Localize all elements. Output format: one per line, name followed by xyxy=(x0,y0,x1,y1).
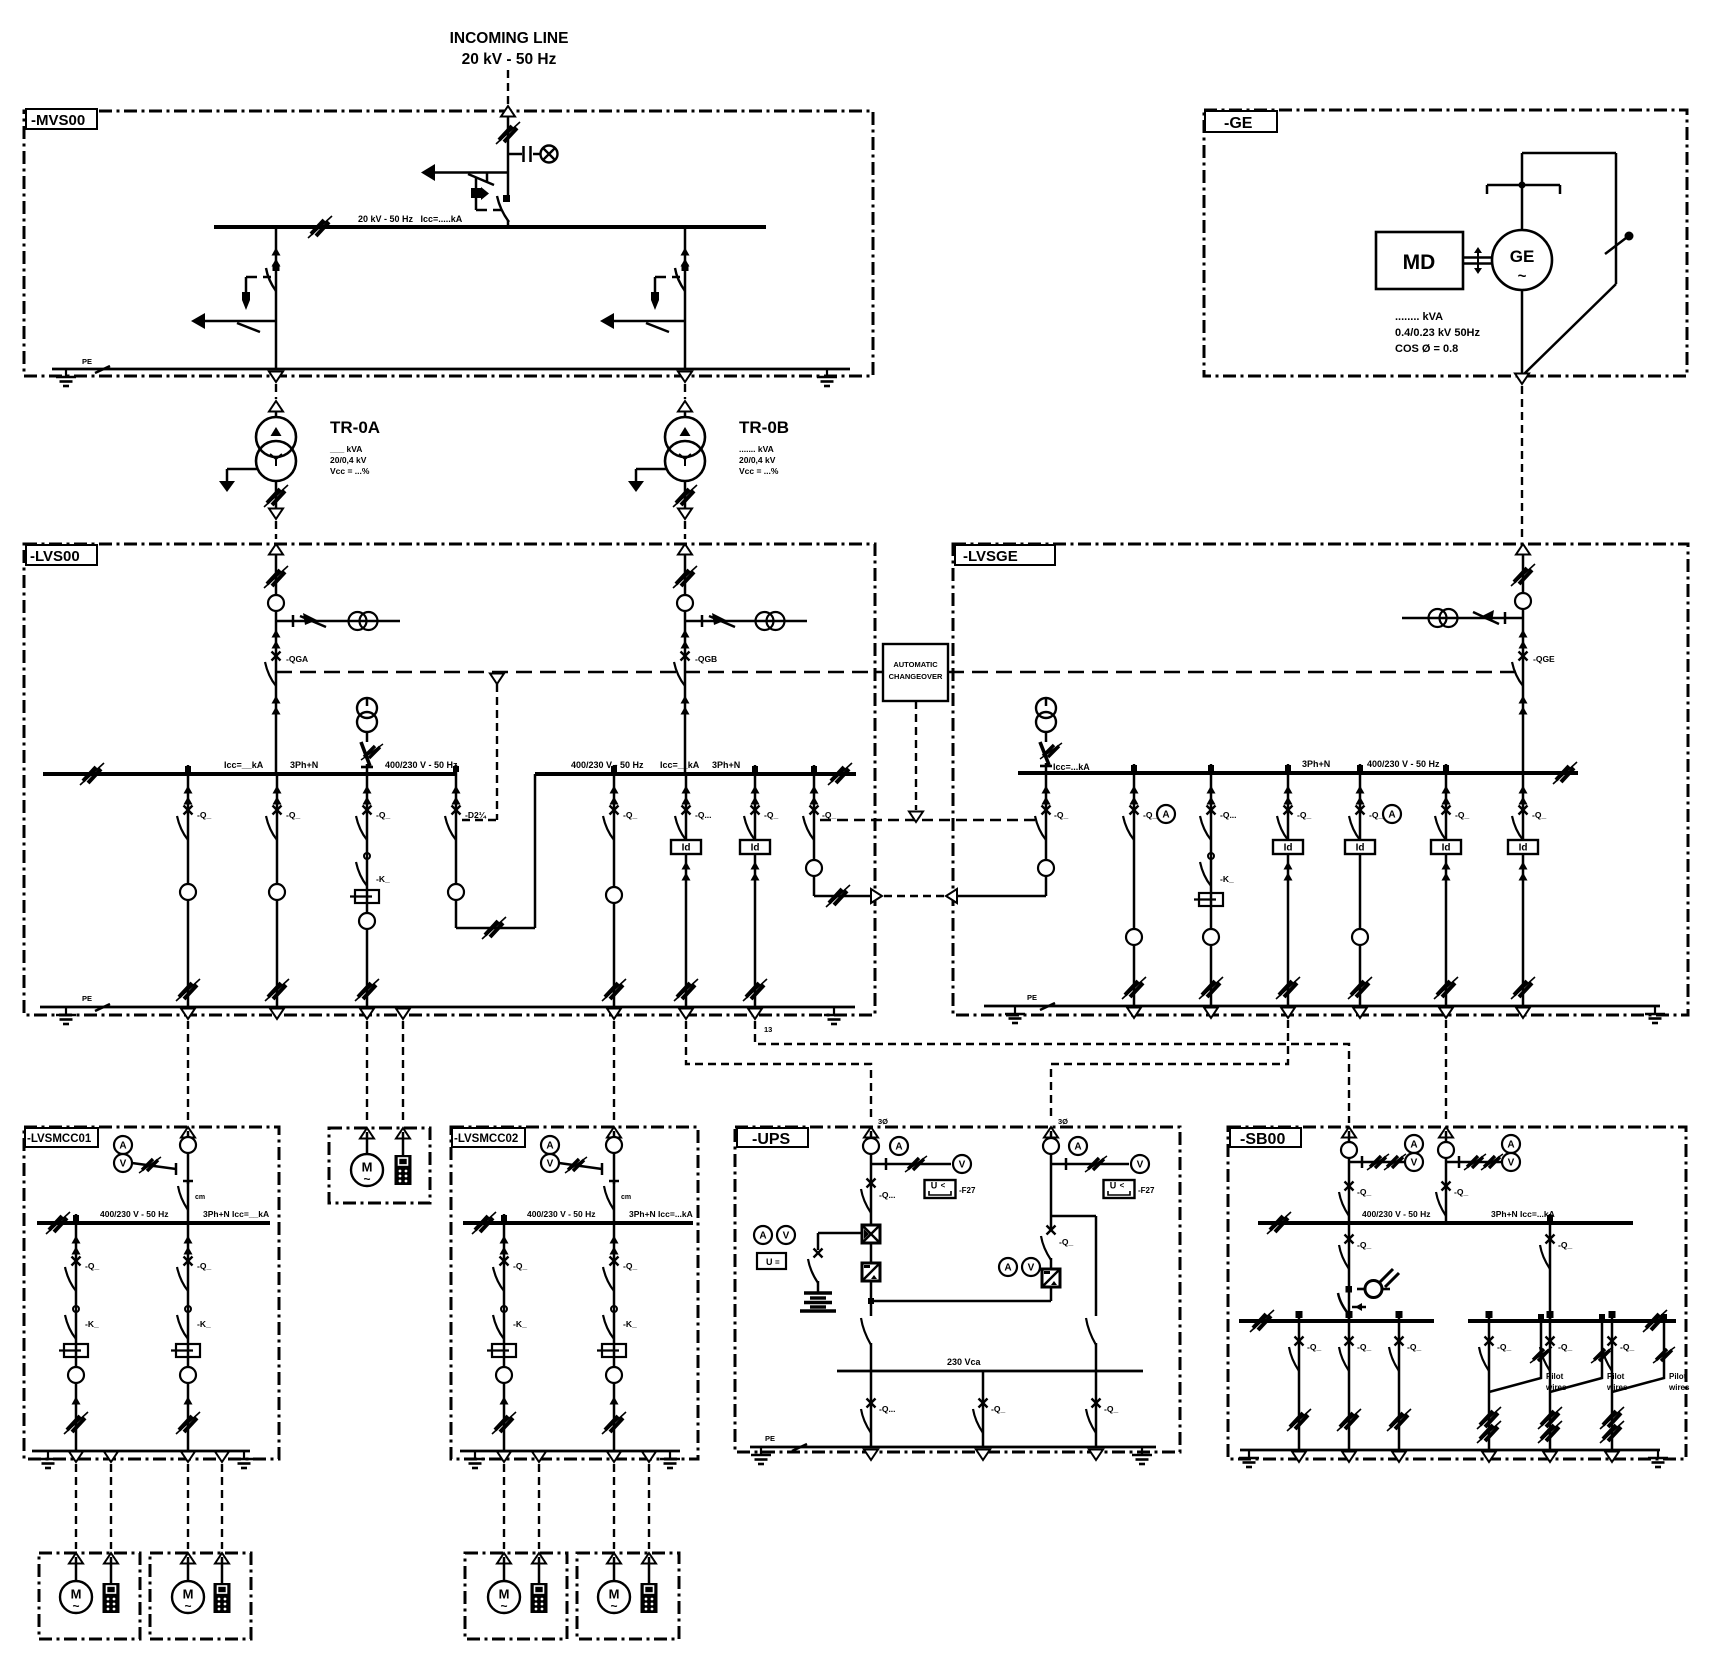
voltmeter ammeter MCC02 xyxy=(541,1136,602,1175)
wire motor4 leads xyxy=(614,1557,649,1583)
cable mark MV busbar xyxy=(308,216,332,238)
wire link m2 motor xyxy=(187,1464,189,1549)
static switch UPS xyxy=(1042,1269,1060,1287)
svg-text:3Ph+N Icc=...kA: 3Ph+N Icc=...kA xyxy=(1491,1209,1555,1219)
withdrawable contacts g1 xyxy=(1130,786,1139,805)
residual relay Id g3 xyxy=(1273,840,1303,854)
wire tie to LVSGE xyxy=(957,895,1046,898)
MCC02 motor feeder 1 xyxy=(487,1223,527,1462)
cable mark tie xyxy=(482,917,506,939)
UPS output switch bypass xyxy=(1086,1311,1096,1371)
switch blade aux incoming xyxy=(468,172,494,185)
switch -QGB xyxy=(674,652,690,687)
node aux arrow m4b xyxy=(642,1452,656,1463)
svg-text:3Ph+N: 3Ph+N xyxy=(712,760,740,770)
drive device 2 xyxy=(214,1583,231,1613)
residual relay Id g6 xyxy=(1508,840,1538,854)
node busbar tap x456 xyxy=(453,765,459,774)
label box -LVS00 xyxy=(26,545,97,565)
switch -Q u2 xyxy=(1041,1216,1073,1272)
CT GE incomer xyxy=(1429,609,1458,627)
withdrawable contacts QGB xyxy=(681,630,690,649)
wire link LVS00-f4 to MCC02 xyxy=(613,1021,615,1120)
CT incomer A xyxy=(349,612,378,630)
thermal relay m3 xyxy=(487,1344,516,1357)
label busbar right xyxy=(571,760,740,770)
interlock dashed line QGA-QGB xyxy=(276,671,883,673)
withdrawable contacts tieGE xyxy=(1042,786,1051,805)
wire incomer B xyxy=(684,554,687,774)
svg-text:-LVSGE: -LVSGE xyxy=(963,548,1018,565)
transformer TR-0B xyxy=(665,417,705,481)
node entry arrows motor box 2 xyxy=(181,1553,229,1564)
breaker -Q f2 xyxy=(266,806,282,841)
contactor -K g2 xyxy=(1200,853,1214,886)
switch -Q lf xyxy=(1345,1235,1354,1244)
PE bar SB00 xyxy=(1240,1449,1660,1452)
svg-text:PE: PE xyxy=(82,994,92,1003)
interlock dashed line QGE xyxy=(948,671,1516,673)
node busbar tap x76 xyxy=(73,1214,79,1223)
node busbar tap x1211 xyxy=(1208,764,1214,773)
node busbar tap x1550 xyxy=(1547,1214,1553,1223)
withdrawable contacts f2 xyxy=(273,786,282,805)
node exit arrow f4 xyxy=(607,1009,621,1020)
ground MCC01 left xyxy=(38,1451,58,1468)
node aux arrow m2b xyxy=(215,1452,229,1463)
wire drive unit xyxy=(402,1132,405,1155)
wire link m3 device xyxy=(538,1464,540,1549)
enclosure motor box 2 xyxy=(150,1553,251,1639)
svg-text:-Q_: -Q_ xyxy=(1532,810,1546,820)
wire feeder 6 xyxy=(754,774,757,1007)
ground MCC02 right xyxy=(660,1451,680,1468)
node entry arrow LVS00 A xyxy=(269,544,283,555)
LVS00 feeder 4 (to LVSMCC02) xyxy=(602,774,637,1019)
wire feeder B xyxy=(684,227,687,369)
svg-text:~: ~ xyxy=(1518,268,1527,285)
svg-text:230 Vca: 230 Vca xyxy=(947,1357,982,1367)
svg-text:-K_: -K_ xyxy=(376,874,390,884)
ground LVSGE right xyxy=(1645,1006,1665,1023)
busbar LVS00 right xyxy=(535,772,856,776)
node entry arrow SB00 line 1 xyxy=(1342,1127,1356,1138)
LVSGE tie feeder xyxy=(1035,773,1068,896)
withdrawable contact m4 low xyxy=(610,1397,619,1405)
main switch MCC01 xyxy=(187,1180,190,1184)
instrument circle u2 xyxy=(1043,1138,1059,1154)
node boundary arrow left xyxy=(871,889,882,903)
svg-text:20/0,4 kV: 20/0,4 kV xyxy=(739,455,776,465)
breaker -Q g4 xyxy=(1349,806,1365,841)
PE bar LVSGE xyxy=(984,1005,1660,1008)
ground UPS left xyxy=(751,1447,771,1464)
node exit arrow m3 xyxy=(497,1452,511,1463)
svg-text:CHANGEOVER: CHANGEOVER xyxy=(889,672,943,681)
svg-text:-Q_: -Q_ xyxy=(623,1261,637,1271)
neutral bracket xyxy=(1487,182,1560,195)
wire generator star point xyxy=(1522,153,1616,284)
withdrawable contacts g3 xyxy=(1284,786,1293,805)
PE bar MCC01 xyxy=(32,1450,250,1453)
withdrawable contacts m4 xyxy=(610,1236,619,1255)
voltmeter s2 xyxy=(1502,1153,1520,1171)
UPS outgoing 1 xyxy=(861,1371,896,1460)
withdrawable contacts f1 xyxy=(184,786,193,805)
contactor -K m4 xyxy=(603,1306,617,1339)
motor M3 xyxy=(488,1581,520,1613)
svg-text:-Q_: -Q_ xyxy=(197,810,211,820)
node entry arrow UPS line 2 xyxy=(1044,1117,1068,1138)
cable mark f1 xyxy=(176,979,200,1001)
incomer MCC02 xyxy=(604,1131,631,1223)
wire GE feeder 1 xyxy=(1133,773,1136,1006)
svg-text:-Q_: -Q_ xyxy=(1357,1240,1371,1250)
svg-text:-Q_: -Q_ xyxy=(1357,1187,1371,1197)
svg-text:MD: MD xyxy=(1403,251,1436,274)
label box -MVS00 xyxy=(26,109,97,129)
svg-text:-LVSMCC01: -LVSMCC01 xyxy=(27,1133,92,1145)
svg-text:-LVSMCC02: -LVSMCC02 xyxy=(454,1133,518,1145)
svg-text:-Q_: -Q_ xyxy=(85,1261,99,1271)
svg-text:=: = xyxy=(775,1258,780,1267)
withdrawable contacts g5 lower xyxy=(1442,862,1451,881)
wire GE incomer xyxy=(1522,554,1525,773)
SB00 incomer 1 xyxy=(1339,1131,1423,1223)
ground LVSGE left xyxy=(1005,1006,1025,1023)
wire motor3 leads xyxy=(504,1557,539,1583)
instrument circle incomer MCC01 xyxy=(180,1137,196,1153)
busbar MV 20kV xyxy=(214,225,766,229)
instrument circle f1 xyxy=(180,884,196,900)
drive device 1 xyxy=(103,1583,120,1613)
LVSGE feeder 5 (to SB00) xyxy=(1431,773,1469,1018)
svg-text:-Q_: -Q_ xyxy=(197,1261,211,1271)
MV feeder bay A xyxy=(191,227,281,369)
residual relay Id f6 xyxy=(740,840,770,854)
withdrawable contacts m2 xyxy=(184,1236,193,1255)
svg-text:-Q_: -Q_ xyxy=(1497,1342,1511,1352)
ground MVS00 right xyxy=(817,369,837,386)
svg-text:-LVS00: -LVS00 xyxy=(30,548,80,565)
label MV busbar xyxy=(358,214,463,224)
breaker -D2 xyxy=(445,806,461,841)
node sync arrow xyxy=(490,674,504,685)
ammeter battery xyxy=(754,1226,772,1244)
cable mark f6 xyxy=(743,979,767,1001)
node exit arrow TR-0A sec xyxy=(269,509,283,520)
svg-text:-Q_: -Q_ xyxy=(1297,810,1311,820)
LVSGE feeder 4 xyxy=(1345,773,1401,1018)
voltmeter tap u1 xyxy=(871,1163,951,1166)
svg-text:U: U xyxy=(766,1257,773,1267)
node entry arrow MVS00 xyxy=(501,106,515,117)
svg-text:-Q_: -Q_ xyxy=(991,1404,1005,1414)
node entry arrow LVS00 B xyxy=(678,544,692,555)
withdrawable contacts g2 xyxy=(1207,786,1216,805)
enclosure motor box 1 xyxy=(39,1553,140,1639)
wire static switch out xyxy=(1050,1287,1053,1301)
label MCC02 busbar xyxy=(527,1209,693,1219)
label TR-0A xyxy=(329,418,380,476)
breaker -Q m3 xyxy=(493,1257,509,1292)
wire link LVSGE-g5 to SB00 xyxy=(1445,1020,1447,1123)
node exit arrow g4 xyxy=(1353,1008,1367,1019)
wire changeover dashed xyxy=(915,701,917,810)
switch battery xyxy=(814,1249,823,1258)
svg-text:400/230 V - 50 Hz: 400/230 V - 50 Hz xyxy=(1367,759,1440,769)
enclosure -LVSGE xyxy=(953,544,1688,1015)
label box -LVSGE xyxy=(955,545,1055,565)
cable mark LVSGE busbar xyxy=(1553,762,1577,784)
enclosure -LVSMCC01 xyxy=(24,1127,279,1459)
label box -GE xyxy=(1205,111,1277,132)
capacitor divider xyxy=(524,146,531,162)
withdrawable contacts g3 lower xyxy=(1284,862,1293,881)
voltmeter battery xyxy=(777,1226,795,1244)
LVS00 tie feeder to LVSGE xyxy=(803,774,1046,907)
svg-text:-K_: -K_ xyxy=(513,1319,527,1329)
busbar LVS00 left xyxy=(43,772,456,776)
node busbar tap x188 xyxy=(185,765,191,774)
instrument circle GE incomer xyxy=(1515,593,1531,609)
wire motor1 leads xyxy=(76,1557,111,1583)
incomer A from TR-0A xyxy=(264,554,400,774)
cable mark g4 xyxy=(1348,977,1372,999)
pilot wire R2 xyxy=(1550,1321,1602,1392)
svg-text:3Ph+N: 3Ph+N xyxy=(290,760,318,770)
instrument circle incomer MCC02 xyxy=(606,1137,622,1153)
node entry arrow MCC02 xyxy=(607,1127,621,1138)
svg-text:-Q_: -Q_ xyxy=(1054,810,1068,820)
motor M1 xyxy=(60,1581,92,1613)
svg-text:-Q_: -Q_ xyxy=(1558,1342,1572,1352)
PE bar MCC02 xyxy=(460,1450,680,1453)
wire incomer MCC01 xyxy=(187,1131,190,1223)
enclosure motor box 4 xyxy=(577,1553,679,1639)
SB00 sub feeder right xyxy=(1540,1223,1572,1321)
svg-text:Pilot: Pilot xyxy=(1669,1372,1687,1381)
node boundary arrow right xyxy=(946,889,957,903)
metering tap B xyxy=(685,620,807,623)
lamp indicator xyxy=(541,146,558,163)
enclosure -LVS00 xyxy=(24,544,875,1015)
cable mark f3 xyxy=(355,979,379,1001)
switch -Q s2 xyxy=(1442,1182,1451,1191)
cable mark MCC02 busbar xyxy=(472,1212,496,1234)
wire lighting feeder xyxy=(1348,1223,1351,1321)
LVSGE feeder 1 xyxy=(1122,773,1175,1018)
thermal relay m2 xyxy=(171,1344,200,1357)
wire TR-0B top xyxy=(684,411,687,418)
UPS outgoing 2 xyxy=(973,1371,1005,1460)
svg-text:PE: PE xyxy=(1027,993,1037,1002)
wire UPS feeder1 xyxy=(870,1131,873,1227)
rectifier UPS xyxy=(862,1225,880,1243)
svg-text:-Q_: -Q_ xyxy=(1104,1404,1118,1414)
node arrow TR-0A in xyxy=(269,401,283,412)
MCC01 motor feeder 1 xyxy=(59,1223,99,1462)
node sync arrow on PE gap xyxy=(396,1009,410,1020)
svg-text:Icc=...kA: Icc=...kA xyxy=(1053,762,1090,772)
earthing disconnector feeder A xyxy=(205,320,276,323)
label MCC01 busbar xyxy=(100,1209,269,1219)
thermal relay m1 xyxy=(59,1344,88,1357)
enclosure -MVS00 xyxy=(24,111,873,376)
wire link m4 motor xyxy=(613,1464,615,1549)
breaker -Q m1 xyxy=(65,1257,81,1292)
withdrawable contacts f5 lower xyxy=(682,862,691,881)
node exit arrow TR-0A xyxy=(269,372,283,383)
cable mark lower left xyxy=(1250,1310,1274,1332)
node exit arrow g5 xyxy=(1439,1008,1453,1019)
svg-text:-UPS: -UPS xyxy=(752,1131,791,1148)
contactor -K m1 xyxy=(65,1306,79,1339)
svg-text:-Q_: -Q_ xyxy=(1307,1342,1321,1352)
breaker -Q g5 xyxy=(1435,806,1451,841)
operating mechanism incoming xyxy=(471,178,501,210)
svg-text:Vcc = ...%: Vcc = ...% xyxy=(330,466,370,476)
switch -QGE xyxy=(1512,652,1528,687)
svg-text:Vcc = ...%: Vcc = ...% xyxy=(739,466,779,476)
breaker -Q f1 xyxy=(177,806,193,841)
contactor -K m2 xyxy=(177,1306,191,1339)
svg-text:-GE: -GE xyxy=(1224,115,1253,132)
neutral disconnect switch xyxy=(1523,232,1634,376)
wire TR-0A top xyxy=(275,411,278,418)
node entry arrow MCC01 xyxy=(181,1127,195,1138)
residual relay Id f5 xyxy=(671,840,701,854)
svg-text:3Ph+N Icc=...kA: 3Ph+N Icc=...kA xyxy=(629,1209,693,1219)
svg-text:cm: cm xyxy=(621,1194,631,1201)
UPS outgoing 3 xyxy=(1086,1371,1118,1460)
enclosure -UPS xyxy=(735,1127,1180,1452)
svg-text:-Q_: -Q_ xyxy=(822,810,836,820)
voltmeter tap u2 xyxy=(1051,1163,1129,1166)
bypass branch UPS xyxy=(1051,1216,1096,1311)
LVS00 feeder 2 (spare) xyxy=(265,774,300,1019)
wire tie left xyxy=(455,774,458,928)
wire GE dashed drop xyxy=(1521,386,1523,539)
cable mark MCC01 busbar xyxy=(46,1212,70,1234)
wire incoming dashed drop xyxy=(507,70,509,106)
node entry arrows motor box 3 xyxy=(497,1553,546,1564)
breaker -Q tieGE xyxy=(1035,806,1051,841)
svg-text:wires: wires xyxy=(1668,1383,1690,1392)
cable mark incomer A xyxy=(264,566,288,588)
svg-text:-K_: -K_ xyxy=(197,1319,211,1329)
wire GE feeder 6 xyxy=(1522,773,1525,1006)
svg-text:20 kV - 50 Hz Icc=.....kA: 20 kV - 50 Hz Icc=.....kA xyxy=(358,214,463,224)
ground MVS00 left xyxy=(56,369,76,386)
cable mark SB00 busbar xyxy=(1267,1212,1291,1234)
withdrawable contacts QGE xyxy=(1519,630,1528,649)
breaker -Q f3 xyxy=(356,806,372,841)
instrument circle g4 xyxy=(1352,929,1368,945)
withdrawable contacts f5 xyxy=(682,786,691,805)
svg-text:-QGE: -QGE xyxy=(1533,654,1555,664)
instrument circle g2 xyxy=(1203,929,1219,945)
node exit arrow GE xyxy=(1515,374,1529,385)
wire breaker tee xyxy=(507,150,510,197)
SB00 circuit R1 xyxy=(1477,1311,1567,1462)
ground MCC01 right xyxy=(234,1451,254,1468)
instrument circle s2 xyxy=(1438,1142,1454,1158)
enclosure -LVSMCC02 xyxy=(451,1127,698,1459)
MCC01 motor feeder 2 xyxy=(171,1223,211,1462)
svg-text:-Q...: -Q... xyxy=(1220,810,1237,820)
withdrawable contacts feeder B xyxy=(681,248,690,267)
wire incomer A xyxy=(275,554,278,774)
svg-text:-Q...: -Q... xyxy=(879,1190,896,1200)
withdrawable contacts QGB lower xyxy=(681,696,690,715)
label PE MVS00 xyxy=(82,357,110,373)
svg-text:-Q_: -Q_ xyxy=(1059,1237,1073,1247)
ground UPS right xyxy=(1132,1447,1152,1464)
wire UPS feeder2 xyxy=(1050,1131,1053,1216)
incomer B from TR-0B xyxy=(673,554,807,774)
svg-text:-QGB: -QGB xyxy=(695,654,717,664)
node exit arrow f5 xyxy=(679,1009,693,1020)
ground SB00 left xyxy=(1239,1450,1259,1467)
cable mark incoming xyxy=(496,122,520,144)
cable mark m1 xyxy=(64,1412,88,1434)
node entry arrows motor box 1 xyxy=(69,1553,118,1564)
node exit arrow g3 xyxy=(1281,1008,1295,1019)
svg-text:-Q_: -Q_ xyxy=(376,810,390,820)
svg-text:400/230 V - 50 Hz: 400/230 V - 50 Hz xyxy=(1362,1209,1431,1219)
wire sb incomer2 xyxy=(1445,1131,1448,1223)
ammeter u1 xyxy=(890,1137,908,1155)
instrument circle incomer B xyxy=(677,595,693,611)
wire tie dashed crossing xyxy=(884,895,944,897)
wire feeder 5 xyxy=(685,774,688,1007)
label box -SB00 xyxy=(1230,1128,1301,1148)
shaft coupling xyxy=(1463,247,1492,274)
svg-text:-Q_: -Q_ xyxy=(513,1261,527,1271)
voltmeter s1 xyxy=(1405,1153,1423,1171)
svg-text:-F27: -F27 xyxy=(1138,1186,1155,1195)
MCC02 motor feeder 2 xyxy=(597,1223,637,1462)
svg-text:20/0,4 kV: 20/0,4 kV xyxy=(330,455,367,465)
wire link m4 device xyxy=(648,1464,650,1549)
svg-text:-Q_: -Q_ xyxy=(1620,1342,1634,1352)
ammeter g1 xyxy=(1157,805,1175,823)
PE bar LVS00 xyxy=(40,1006,855,1009)
svg-text:3Ø: 3Ø xyxy=(878,1117,888,1126)
svg-text:-K_: -K_ xyxy=(1220,874,1234,884)
wire GE feeder 4 xyxy=(1359,773,1362,1006)
breaker -Q m2 xyxy=(177,1257,193,1292)
node incoming line label xyxy=(450,30,569,68)
CT incomer B xyxy=(756,612,785,630)
switch -Q s1 xyxy=(1345,1182,1354,1191)
node arrow TR-0B in xyxy=(678,401,692,412)
ground LVS00 left xyxy=(56,1007,76,1024)
svg-text:-Q...: -Q... xyxy=(879,1404,896,1414)
cable mark GE incomer xyxy=(1511,564,1535,586)
wire motor unit xyxy=(366,1132,369,1154)
breaker -Q f6 xyxy=(744,806,760,841)
svg-text:-Q_: -Q_ xyxy=(1143,810,1157,820)
SB00 circuit R3 xyxy=(1600,1311,1690,1462)
earthing disconnector feeder B xyxy=(614,320,685,323)
instrument circle s1 xyxy=(1341,1142,1357,1158)
motor M4 xyxy=(598,1581,630,1613)
node entry arrow drive unit xyxy=(396,1128,410,1139)
label box -LVSMCC01 xyxy=(25,1128,98,1147)
breaker -Q g3 xyxy=(1277,806,1293,841)
